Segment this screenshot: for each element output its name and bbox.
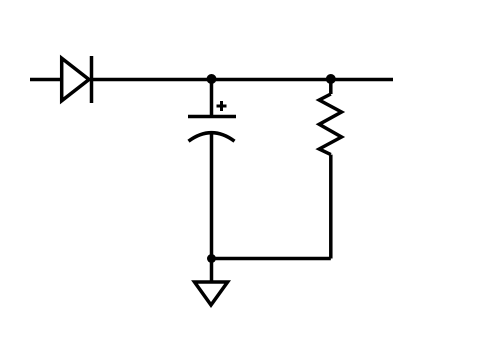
capacitor C1 positive plate [188,115,236,119]
wire left input [30,78,62,82]
wire top rail [92,78,394,82]
node junction top-left [207,74,217,84]
diode D1 anode triangle [62,58,89,101]
resistor R1 zigzag [319,94,341,155]
node junction bottom [207,254,216,263]
capacitor C1 plus sign [217,101,227,111]
node junction top-right [326,74,336,84]
ground symbol [195,282,228,305]
wire ground lead [210,259,214,283]
diode D1 cathode bar [90,56,94,103]
wire resistor top lead [329,79,333,94]
wire capacitor bottom lead [210,134,214,260]
capacitor C1 curved plate [189,133,235,142]
wire capacitor top lead [210,79,214,117]
wire bottom rail [212,257,331,261]
wire resistor bottom lead [329,155,333,259]
